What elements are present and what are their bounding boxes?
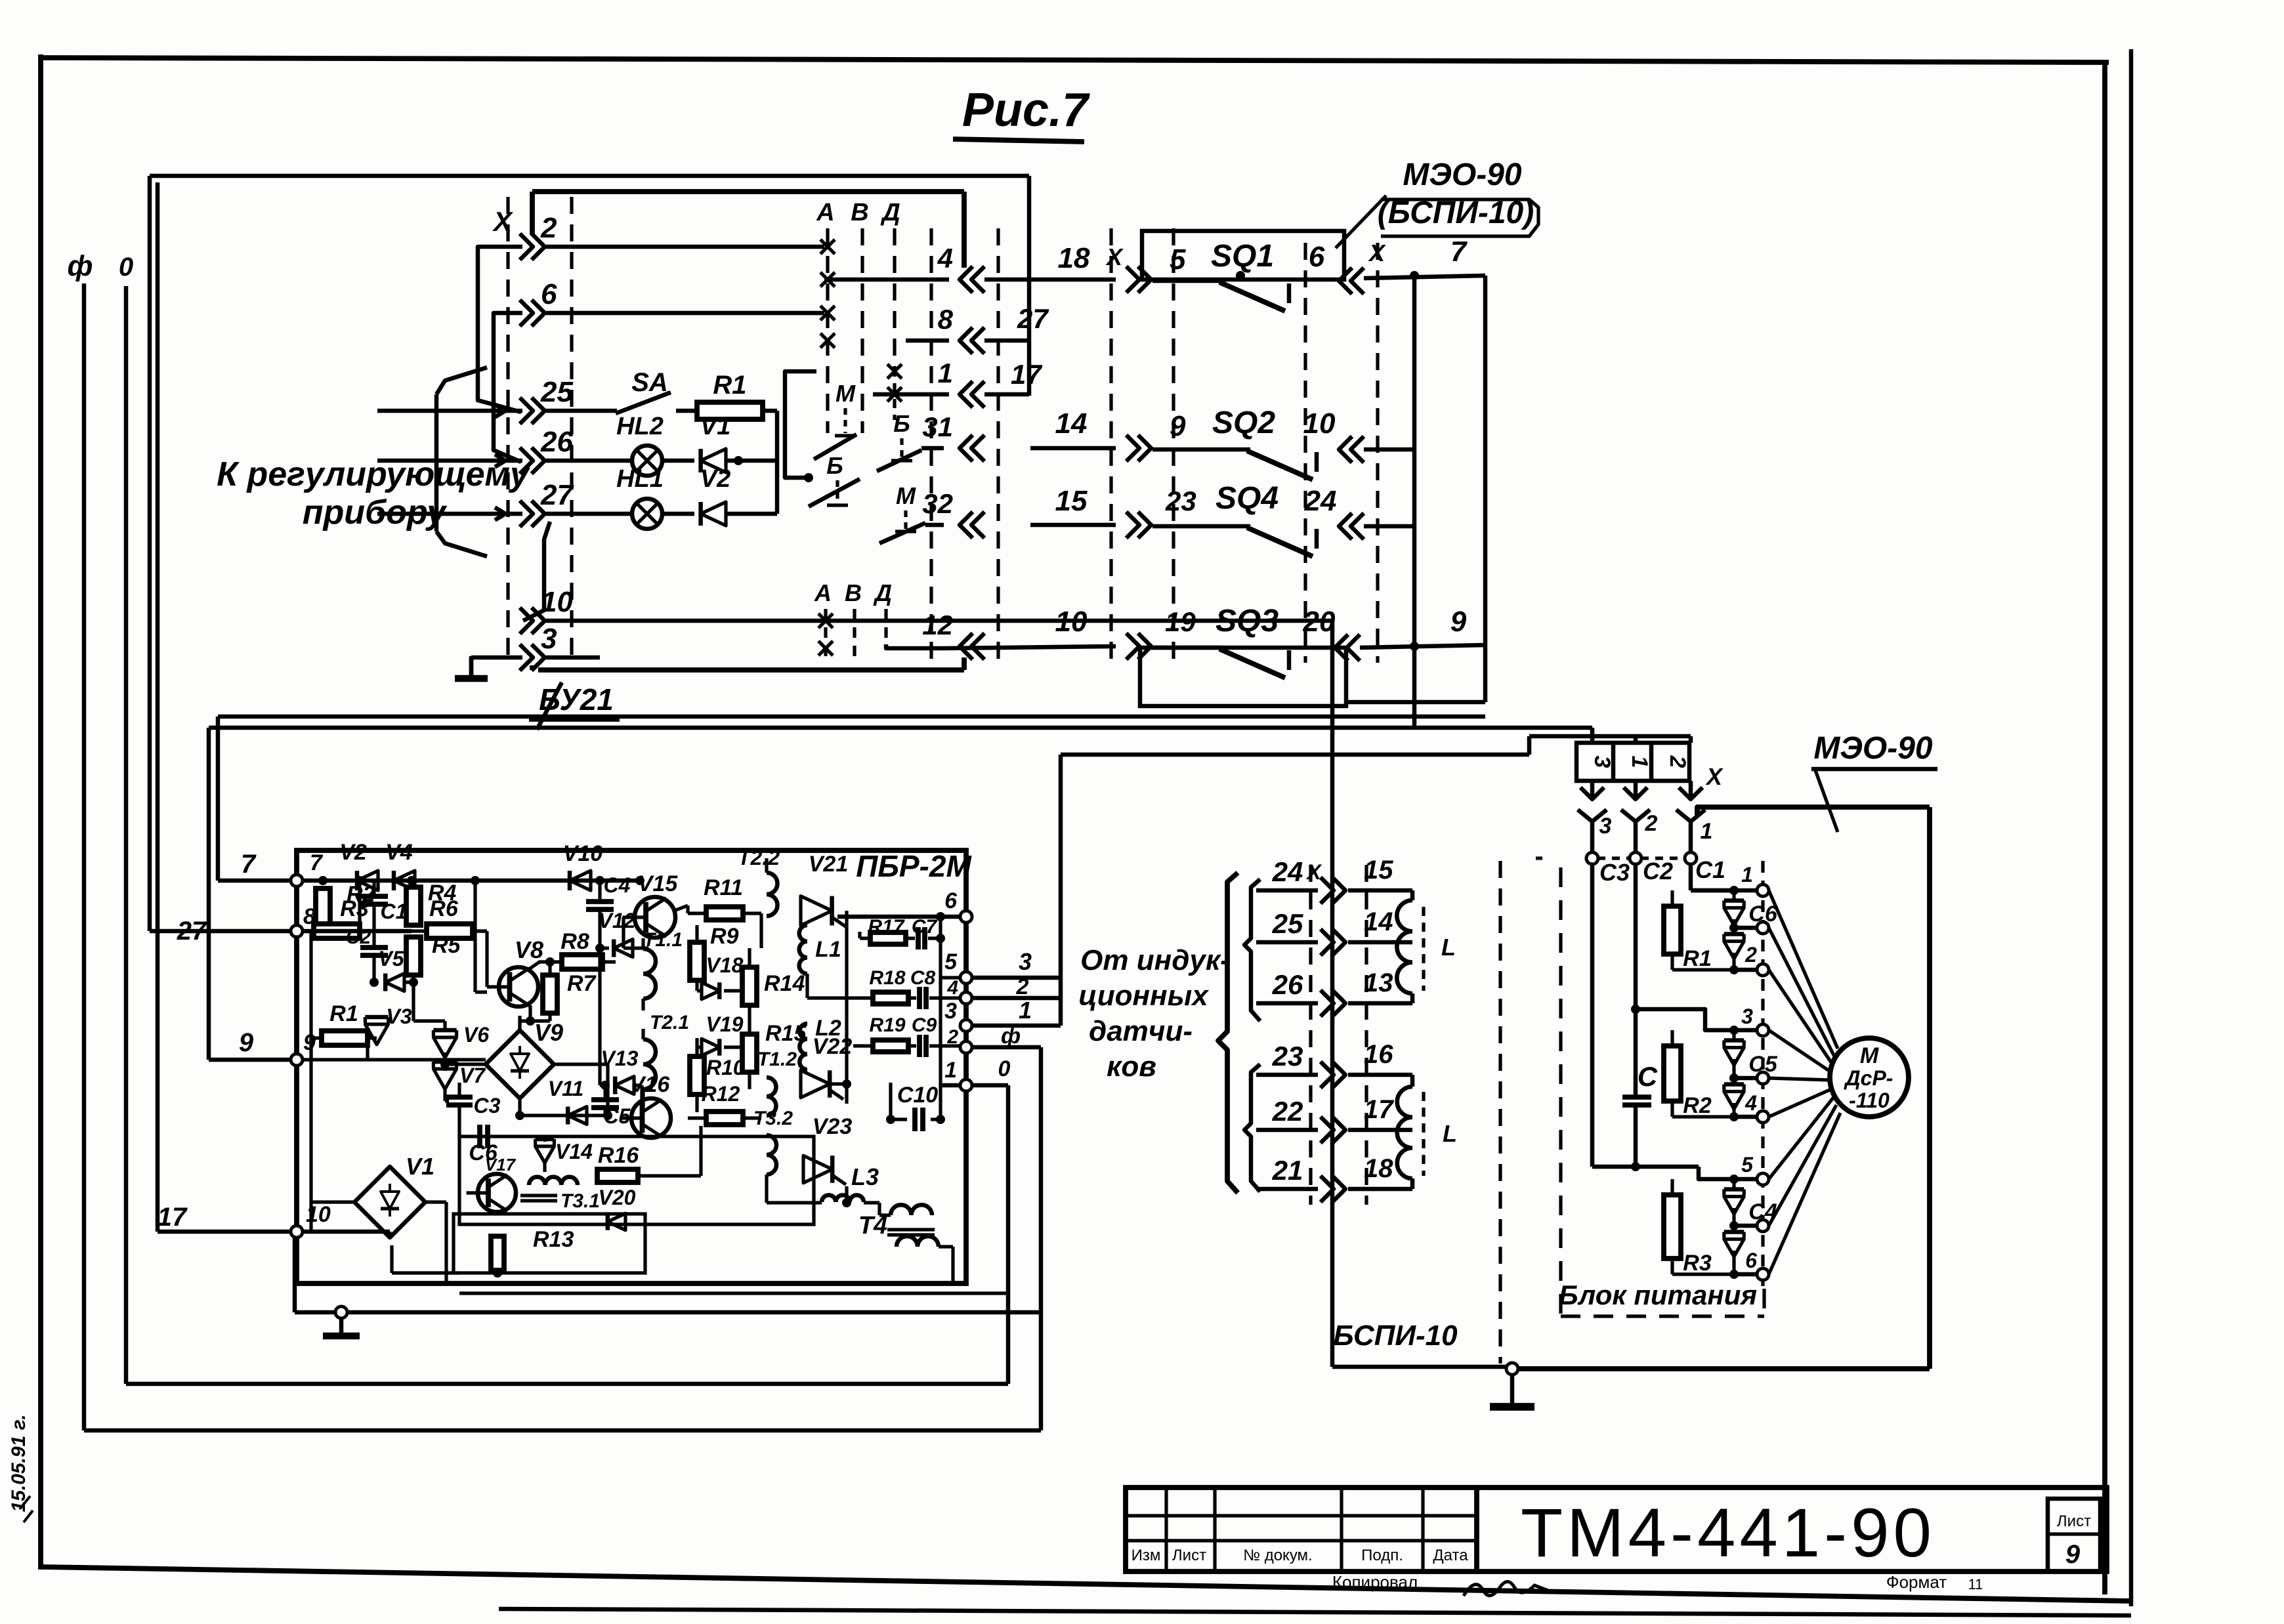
svg-text:9: 9 — [2065, 1540, 2081, 1569]
svg-text:26: 26 — [540, 426, 573, 458]
svg-text:R2: R2 — [1683, 1093, 1712, 1118]
resistor R4 — [406, 887, 421, 925]
svg-text:Б: Б — [826, 452, 843, 479]
wire row 25 entry arrow — [377, 409, 459, 413]
sensor big brace — [1218, 873, 1238, 1193]
wire row 4 — [824, 278, 949, 282]
wire SQ4 to bus — [1364, 524, 1414, 529]
sensor pin 22 chevron — [1321, 1117, 1334, 1143]
svg-text:Д: Д — [880, 199, 900, 226]
svg-text:V15: V15 — [638, 871, 679, 896]
wire V23 cathode down — [845, 1186, 848, 1203]
svg-text:В: В — [851, 199, 868, 226]
connector pin 19 chevron — [1126, 633, 1139, 659]
ground symbol below ПБР — [339, 1318, 344, 1335]
sensor pin 24 chevron — [1321, 877, 1334, 904]
svg-text:5: 5 — [1170, 243, 1186, 276]
svg-text:4: 4 — [1745, 1091, 1757, 1115]
power group 1 top feed — [1690, 858, 1691, 890]
inductor L1 — [799, 925, 807, 974]
wire T3.2 bottom to L3 — [765, 1175, 768, 1203]
sensor connector dashed boundaries — [1309, 865, 1312, 1205]
svg-text:Рис.7: Рис.7 — [962, 84, 1090, 136]
wire R16 link — [638, 1174, 701, 1177]
svg-text:C5: C5 — [604, 1104, 631, 1128]
wire net1 horizontal to МЭО connector — [1061, 753, 1529, 757]
wire row 10 long to sensor block — [546, 619, 1332, 623]
svg-text:3: 3 — [541, 623, 557, 655]
svg-text:Копировал: Копировал — [1332, 1572, 1418, 1592]
wire 14 row — [1030, 446, 1116, 451]
svg-text:V2: V2 — [700, 465, 730, 493]
group С6 mid wire — [1734, 926, 1758, 930]
connector pin 25 chevron — [520, 398, 533, 424]
БУ21 connector dashed boundary left — [506, 197, 509, 664]
switch SQ2 blade — [1247, 451, 1313, 480]
wire feed row2 from below — [478, 247, 522, 412]
right connector dashed boundaries — [1109, 228, 1112, 663]
zener pair С5 lower — [1724, 1092, 1744, 1110]
connector pin 10 chevron — [520, 608, 533, 634]
title block outline — [1126, 1488, 2107, 1572]
svg-text:ПБР-2М: ПБР-2М — [856, 849, 972, 883]
svg-text:15.05.91 г.: 15.05.91 г. — [8, 1414, 30, 1512]
ПБР pin 7 — [291, 875, 303, 886]
svg-text:R5: R5 — [432, 933, 461, 958]
wire С3 column — [1590, 864, 1595, 1167]
svg-text:V22: V22 — [813, 1034, 853, 1059]
sheet border bottom second line — [499, 1609, 2131, 1615]
resistor R7 — [543, 975, 557, 1013]
svg-text:ков: ков — [1107, 1051, 1156, 1083]
svg-text:С5: С5 — [1748, 1052, 1778, 1077]
svg-text:прибору: прибору — [303, 493, 448, 531]
sensor row 26-13 wire — [1256, 1001, 1318, 1006]
svg-text:X: X — [1305, 860, 1322, 884]
svg-text:Изм: Изм — [1131, 1547, 1161, 1564]
wire row 1 to bus — [984, 392, 1029, 397]
wire stub cell3 up — [1590, 728, 1595, 743]
wire SQ3 to 9 bus — [1360, 645, 1485, 648]
svg-text:9: 9 — [1170, 410, 1186, 442]
left inner drop R2 column — [309, 931, 312, 1232]
svg-text:V1: V1 — [700, 413, 730, 440]
wire row 8 to bus — [984, 339, 1029, 343]
svg-text:25: 25 — [1272, 908, 1303, 939]
svg-text:V23: V23 — [813, 1114, 853, 1139]
svg-text:R15: R15 — [765, 1021, 807, 1046]
svg-text:2: 2 — [1665, 755, 1690, 768]
svg-text:16: 16 — [1364, 1040, 1393, 1069]
wire ПБР pin4 out — [972, 996, 1061, 1001]
sheet border bottom — [41, 1567, 2131, 1601]
connector pin 27 chevron — [520, 501, 533, 527]
contact group bracket — [785, 371, 816, 478]
svg-text:R11: R11 — [704, 875, 743, 900]
svg-text:ционных: ционных — [1078, 980, 1209, 1012]
svg-text:R8: R8 — [560, 929, 589, 954]
svg-text:3: 3 — [944, 999, 957, 1024]
wire stub cell1 up — [1634, 736, 1638, 743]
power pin y1478 — [1757, 964, 1769, 976]
svg-text:1: 1 — [1019, 997, 1032, 1024]
connector pin 2 chevron — [520, 234, 533, 260]
zener V6 — [433, 1037, 456, 1058]
transistor V8 — [499, 967, 538, 1007]
wire V9 right — [554, 1062, 608, 1066]
sensor group brace 1 — [1244, 879, 1260, 1021]
svg-text:М: М — [896, 482, 916, 509]
svg-text:18: 18 — [1364, 1154, 1393, 1183]
signature scribble — [1464, 1581, 1552, 1596]
svg-text:А: А — [814, 579, 832, 606]
svg-text:4: 4 — [946, 977, 958, 999]
wire SQ3 row — [1153, 646, 1222, 650]
МЭО-90 bottom junction pin — [1506, 1363, 1518, 1375]
inductor L2 — [799, 1024, 807, 1070]
svg-text:Т1.2: Т1.2 — [757, 1049, 797, 1070]
svg-text:9: 9 — [1450, 606, 1467, 638]
svg-text:10: 10 — [1055, 606, 1088, 638]
group R2 top wire — [1734, 1028, 1758, 1033]
cam contact marks lower А — [818, 614, 833, 628]
svg-text:4: 4 — [937, 243, 953, 274]
mid connector pin 31 chevron — [960, 435, 973, 461]
wire V8 emitter node — [528, 1005, 532, 1021]
wire row 1 stub — [873, 392, 949, 397]
wire row 2 — [546, 245, 824, 249]
wire V15 collector to R11 — [686, 906, 689, 913]
svg-text:X: X — [492, 206, 514, 237]
power pin y1868 — [1757, 1220, 1769, 1232]
svg-text:Лист: Лист — [2057, 1512, 2091, 1530]
sensor row 25-14 wire — [1256, 940, 1318, 945]
ПБР pin 9 — [291, 1054, 303, 1066]
svg-text:13: 13 — [1364, 968, 1393, 997]
power pin y1797 — [1757, 1173, 1769, 1185]
svg-text:3: 3 — [1741, 1005, 1753, 1028]
svg-text:R1: R1 — [329, 1001, 358, 1026]
sensor pin 21 chevron — [1321, 1176, 1334, 1202]
wire ПБР pin3 out riser net1 — [972, 1024, 1061, 1028]
svg-text:Т3.1: Т3.1 — [560, 1190, 600, 1212]
ПБР pin 1 — [960, 1079, 972, 1091]
svg-text:6: 6 — [944, 888, 958, 913]
svg-text:БСПИ-10: БСПИ-10 — [1333, 1320, 1458, 1352]
svg-text:-110: -110 — [1849, 1089, 1890, 1112]
connector pin 26 chevron — [520, 448, 533, 474]
wire R1 down to V1 V2 bus — [775, 411, 780, 514]
sensor row 22-17 wire — [1256, 1128, 1318, 1133]
thyristor V21 — [801, 896, 832, 926]
resistor R10 — [690, 1056, 704, 1094]
svg-text:R12: R12 — [702, 1082, 740, 1106]
ПБР pin 2 — [960, 1041, 972, 1053]
svg-text:0: 0 — [998, 1056, 1011, 1081]
svg-text:15: 15 — [1055, 485, 1088, 517]
capacitor C5 — [591, 1097, 619, 1102]
wire row 12 from Д column — [886, 644, 944, 648]
arrow into connector 3 — [1590, 781, 1595, 798]
wire row 27 entry arrow — [377, 512, 459, 516]
wire net 7 long horizontal — [218, 715, 1485, 719]
wire net 9 long horizontal — [209, 726, 1414, 730]
svg-text:3: 3 — [1599, 814, 1612, 839]
transistor V17 — [478, 1174, 516, 1212]
capacitor C2 — [360, 945, 388, 950]
ПБР ground pin — [335, 1306, 347, 1318]
svg-text:5: 5 — [1741, 1153, 1754, 1176]
svg-text:Лист: Лист — [1172, 1547, 1206, 1564]
svg-text:К регулирующему: К регулирующему — [217, 455, 531, 493]
svg-text:С3: С3 — [1599, 859, 1630, 886]
wire net 7 from ПБР pin 7 — [218, 879, 297, 883]
wire R7 to emitter node — [548, 1013, 551, 1021]
wire R9 stubs — [695, 925, 698, 943]
svg-text:14: 14 — [1055, 407, 1088, 440]
group С5 bottom wire — [1734, 1115, 1758, 1119]
svg-text:21: 21 — [1272, 1155, 1303, 1186]
sensor pin 25 chevron — [1321, 929, 1334, 955]
wire row 3 — [471, 656, 522, 660]
sensor pin 26 chevron — [1321, 990, 1334, 1016]
cam contact mark А row y376 — [820, 239, 835, 254]
zener pair С6 upper — [1724, 908, 1744, 926]
svg-text:7: 7 — [310, 850, 324, 875]
svg-text:М: М — [835, 380, 856, 407]
svg-text:C8: C8 — [910, 967, 936, 989]
resistor R13 — [491, 1236, 504, 1270]
svg-text:12: 12 — [922, 610, 953, 640]
svg-text:2: 2 — [540, 212, 557, 244]
wire pin3 row inside — [1060, 1025, 1061, 1026]
svg-text:R10: R10 — [706, 1056, 745, 1079]
wire 10 row — [944, 646, 1116, 648]
wire pin10 drop to ground bus — [293, 1238, 297, 1312]
mid connector pin 1 chevron — [960, 381, 973, 407]
svg-text:V5: V5 — [378, 947, 404, 970]
wire feed row6 from below — [494, 313, 522, 462]
connector pin 10 chevron — [1339, 436, 1352, 463]
svg-text:С1: С1 — [1695, 856, 1725, 883]
svg-text:R1: R1 — [713, 371, 746, 400]
svg-text:X: X — [1705, 763, 1724, 790]
svg-text:10: 10 — [1303, 407, 1336, 440]
ПБР pin 6 — [960, 911, 972, 923]
svg-text:27: 27 — [540, 479, 574, 511]
sheet border left — [38, 54, 43, 1570]
wire row 26 entry arrow — [377, 459, 459, 463]
sensor row 21-18 wire — [1256, 1187, 1318, 1192]
contact М blade — [814, 434, 857, 459]
wire net 0 vertical — [124, 286, 129, 1384]
callout leader line — [1336, 196, 1386, 248]
right connector pin 6 chevron — [1339, 268, 1352, 294]
svg-text:М: М — [1860, 1043, 1879, 1068]
svg-text:8: 8 — [938, 304, 954, 335]
wire C5 column — [603, 1108, 606, 1115]
wire net 9 from ПБР pin 9 — [209, 1058, 297, 1062]
wire net 0 horizontal bottom — [126, 1382, 1008, 1386]
svg-text:R1: R1 — [1683, 946, 1711, 971]
wire ПБР pin1 to 0 riser — [972, 1083, 1008, 1088]
wire V9 top — [518, 1016, 521, 1030]
sensor group brace 2 — [1244, 1064, 1260, 1192]
wire bridge V1 drop — [390, 1245, 393, 1273]
switch SQ3 blade — [1219, 649, 1285, 678]
ПБР-2М block outline — [297, 850, 966, 1283]
svg-text:L: L — [1443, 1120, 1457, 1147]
switch SQ1 blade — [1219, 282, 1285, 311]
wire V21 out — [845, 911, 848, 1104]
svg-text:27: 27 — [1017, 303, 1049, 334]
wire V9 bottom node — [515, 1111, 524, 1120]
wire net 27/17 bus vertical right — [1027, 176, 1032, 396]
svg-text:3: 3 — [1019, 948, 1032, 975]
connector pin 6 chevron — [520, 300, 533, 326]
wire V13 row — [600, 1083, 610, 1087]
group R1 top wire — [1691, 888, 1758, 893]
svg-text:V17: V17 — [485, 1155, 517, 1175]
wire V15 base — [624, 946, 633, 949]
wire V8 collector to R8 — [529, 962, 539, 969]
svg-text:C9: C9 — [912, 1014, 937, 1036]
wire bridge V1 left — [311, 1200, 354, 1203]
capacitor C4 — [586, 899, 614, 904]
БСПИ-10 dashed interface — [1498, 861, 1502, 1364]
brace К регулирующему прибору — [436, 367, 487, 394]
power pin y1414 — [1757, 922, 1769, 934]
svg-text:26: 26 — [1272, 969, 1303, 1000]
svg-text:R16: R16 — [598, 1143, 639, 1168]
switch SA — [546, 409, 617, 413]
ПБР pin 8 — [291, 925, 303, 937]
wire R15 bottom — [748, 1072, 751, 1089]
svg-text:31: 31 — [922, 411, 953, 442]
sheet border right outer — [2129, 49, 2134, 1606]
group R3 top wire — [1734, 1177, 1758, 1182]
wire R6 to V8 base — [474, 929, 487, 932]
svg-text:6: 6 — [1309, 241, 1325, 273]
svg-text:L: L — [1441, 934, 1456, 961]
wire net ф horizontal bottom — [84, 1428, 1041, 1433]
wire ПБР pin2 to ф riser — [972, 1045, 1041, 1050]
wire 2 down to С2 — [1634, 822, 1638, 852]
svg-text:Д: Д — [873, 579, 892, 606]
svg-text:23: 23 — [1165, 486, 1196, 516]
connector pin 9 chevron — [1126, 435, 1139, 461]
connector pin 24 chevron — [1339, 513, 1352, 539]
svg-text:Т2.2: Т2.2 — [738, 846, 780, 869]
МЭО-90 box right edge — [1927, 807, 1932, 1369]
svg-text:22: 22 — [1272, 1096, 1303, 1127]
wire row 4 to 18 — [984, 278, 1030, 282]
wire row8 rail — [303, 929, 412, 934]
wire ПБР pin5 out — [972, 976, 1061, 980]
sensor coil 2 wires — [1348, 1073, 1412, 1077]
ground at БУ21 pin 3 — [469, 657, 474, 677]
svg-text:МЭО-90: МЭО-90 — [1403, 157, 1522, 192]
svg-text:17: 17 — [158, 1203, 188, 1232]
wire T1.1 stubs — [641, 938, 645, 949]
svg-text:V13: V13 — [601, 1047, 639, 1070]
svg-text:V9: V9 — [534, 1019, 563, 1046]
svg-text:БУ21: БУ21 — [539, 682, 614, 717]
wire 3 down to С3 — [1590, 822, 1595, 852]
svg-text:V3: V3 — [386, 1005, 412, 1028]
sensor pin 23 chevron — [1321, 1062, 1334, 1088]
svg-text:C4: C4 — [604, 873, 631, 897]
thyristor V22 — [801, 1070, 830, 1098]
svg-text:X: X — [1368, 239, 1386, 266]
svg-text:24: 24 — [1272, 856, 1303, 887]
svg-text:V6: V6 — [463, 1023, 489, 1047]
mid connector pin 32 chevron — [960, 512, 973, 538]
resistor R9 — [690, 942, 704, 980]
svg-text:1: 1 — [1741, 863, 1753, 886]
wire net 27 into ПБР pin 8 — [150, 929, 297, 934]
wire net ф vertical — [82, 283, 87, 1430]
svg-text:17: 17 — [1011, 359, 1042, 390]
БУ21 block outline top — [532, 189, 964, 194]
svg-text:Блок питания: Блок питания — [1559, 1280, 1757, 1310]
sheet border top — [41, 58, 2109, 62]
sensor row 24-15 wire — [1256, 888, 1318, 893]
wire row9 rail — [303, 1058, 486, 1061]
zener V14 — [536, 1146, 555, 1163]
svg-text:ДсР-: ДсР- — [1844, 1066, 1893, 1090]
wire mid riser to V8 base — [475, 990, 487, 993]
wire V15 collector up — [674, 906, 688, 911]
БУ21 block edge stubs — [530, 192, 535, 235]
bridge V1 — [354, 1167, 425, 1238]
inductor L3 — [822, 1195, 864, 1202]
svg-text:Т2.1: Т2.1 — [650, 1012, 689, 1033]
svg-text:L1: L1 — [815, 937, 841, 962]
svg-text:15: 15 — [1364, 856, 1393, 885]
svg-text:R18: R18 — [869, 967, 905, 989]
mid connector pin 12 chevron — [960, 633, 973, 659]
SQ unit bottom edge — [1346, 700, 1485, 705]
wire net 27 top horizontal — [150, 174, 1029, 178]
svg-text:HL1: HL1 — [616, 465, 664, 493]
resistor R15 — [742, 1034, 757, 1072]
wire second bus to 0 riser — [459, 1291, 1008, 1295]
svg-text:9: 9 — [239, 1028, 254, 1057]
svg-text:C3: C3 — [474, 1094, 501, 1117]
svg-text:R3: R3 — [340, 896, 369, 921]
sensor coil 1 wires — [1348, 888, 1412, 893]
svg-text:Формат: Формат — [1886, 1572, 1947, 1592]
wire С2 tap to pin 3 row — [1631, 1005, 1640, 1014]
wire V7 to C3 — [443, 1087, 446, 1101]
power pin y1357 — [1757, 885, 1769, 896]
svg-text:А: А — [816, 199, 834, 226]
resistor R14 — [742, 967, 757, 1005]
svg-text:V18: V18 — [706, 953, 744, 977]
bus vertical right inside ПБР — [939, 917, 942, 1119]
wire mid riser — [473, 881, 476, 992]
wire V18 row — [697, 989, 702, 992]
resistor R1 — [1664, 906, 1681, 954]
wire 18 row — [1030, 278, 1116, 282]
svg-text:В: В — [845, 579, 862, 606]
wire net 27 vertical left — [148, 176, 152, 931]
bridge V9 — [486, 1030, 554, 1098]
thyristor V23 — [803, 1156, 832, 1183]
contact М2 blade to row 32 — [879, 523, 925, 543]
svg-text:7: 7 — [241, 850, 257, 879]
